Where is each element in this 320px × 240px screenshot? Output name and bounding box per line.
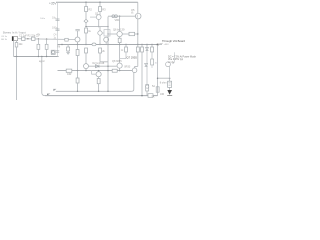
svg-text:100n: 100n [52, 26, 58, 29]
wire mirror down [99, 27, 101, 45]
node tail r16 [141, 44, 142, 45]
svg-text:2k: 2k [102, 50, 105, 53]
wire Q6 right [123, 33, 130, 35]
svg-text:10R: 10R [67, 73, 72, 76]
diode D2 [96, 65, 100, 68]
wire R9 right [135, 33, 138, 35]
wire Q4 emitter [105, 42, 107, 44]
resistor R12b [85, 48, 88, 53]
resistor R4 series [32, 37, 35, 40]
capacitor C8 [56, 51, 59, 52]
node rail-R2 [85, 2, 87, 4]
svg-text:0R33: 0R33 [124, 65, 131, 68]
transistor Q6 vbe multiplier [117, 31, 122, 36]
wire J1 gnd down [13, 41, 15, 57]
node output [157, 44, 159, 46]
wire main ground drop [16, 57, 18, 101]
wire nfb return [42, 57, 45, 96]
node tail mirror [99, 44, 100, 45]
ground speaker arrow [169, 87, 171, 90]
capacitor C9 [75, 29, 79, 30]
wire Q6 base [108, 33, 117, 35]
svg-text:22k: 22k [19, 43, 24, 46]
node bias tap [119, 16, 120, 17]
svg-text:+35V: +35V [164, 44, 170, 46]
node bus loop [41, 56, 43, 58]
wire Q6 collector up [119, 16, 121, 31]
wire R10 bottom [119, 43, 121, 45]
wire Q11 emitter [168, 66, 170, 78]
wire Q1 collector [77, 31, 79, 37]
capacitor C3 [46, 39, 48, 44]
svg-text:8 ohm: 8 ohm [160, 81, 167, 84]
transistor Q2 [96, 15, 101, 20]
node drv q3 [85, 70, 86, 71]
resistor R1 shunt [16, 41, 18, 43]
svg-text:Through V/A Board: Through V/A Board [162, 39, 185, 43]
node tail r13 [125, 44, 126, 45]
wire R18 bottom [98, 84, 100, 92]
wire speaker feed [158, 77, 170, 79]
svg-text:10u: 10u [52, 17, 57, 20]
resistor R7 [66, 69, 72, 72]
wire R12b bottom [85, 53, 87, 64]
ground sym1 [66, 53, 70, 55]
node Q6 base [107, 33, 108, 34]
wire mirror bus [86, 26, 108, 28]
node ret r18 [98, 91, 99, 92]
wire top +V rail [56, 1, 138, 3]
svg-text:Q7 2955: Q7 2955 [127, 56, 138, 60]
capacitor C6 [56, 29, 60, 30]
wire D1 bottom [85, 23, 87, 27]
transistor Q8 driver [117, 63, 122, 68]
wire output drop [157, 45, 159, 96]
resistor R14 [99, 48, 102, 53]
node tail fb [107, 44, 108, 45]
node bus gnd [16, 56, 18, 58]
wire tail line [58, 44, 158, 46]
bottom -V rail [45, 95, 158, 97]
wire Q6 bottom [119, 37, 121, 38]
wire Q3 emitter [85, 69, 87, 71]
diode D3 [146, 45, 148, 48]
node bus r5 [38, 56, 39, 57]
wire rail corner to Q5 [137, 2, 139, 13]
fuse F2 [146, 85, 149, 91]
node tail d3 [146, 44, 147, 45]
wire R3 top [99, 2, 101, 6]
wire vas out [89, 65, 117, 67]
transistor Q1 input [75, 37, 80, 42]
wire R12a bottom [85, 33, 87, 45]
svg-text:Q6 bd139: Q6 bd139 [113, 28, 125, 32]
node speaker tap [157, 77, 159, 79]
node speaker [169, 77, 171, 79]
node drv q7 [98, 70, 99, 71]
svg-text:D2 1n4148: D2 1n4148 [93, 62, 105, 65]
node mirror q2e [98, 26, 99, 27]
wire R3 bottom [99, 12, 101, 16]
wire VAS feed [108, 15, 136, 17]
wire Q7 emitter [98, 77, 100, 79]
svg-text:bc: bc [131, 11, 134, 14]
capacitor C11 oval [92, 43, 96, 46]
svg-text:1k: 1k [88, 30, 91, 33]
node rail r20 [141, 95, 143, 97]
wire Q5 emitter [137, 19, 139, 45]
wire Q1 emitter [77, 42, 79, 45]
svg-text:R3: R3 [102, 7, 106, 11]
wire speaker return [56, 90, 132, 92]
svg-text:1k: 1k [121, 50, 124, 52]
wire Q11 collector route [172, 52, 174, 63]
resistor R19 [77, 71, 79, 78]
resistor R20 [141, 45, 143, 48]
wire R2 bottom [85, 12, 87, 20]
node input c [46, 38, 47, 39]
wire decoupling chain [57, 2, 59, 56]
svg-text:R0 1k: R0 1k [1, 39, 8, 41]
resistor R18 [97, 79, 100, 84]
svg-text:at idle: at idle [168, 61, 175, 64]
wire R14 route [100, 53, 108, 62]
transistor Q3 [84, 64, 89, 69]
resistor R13 [125, 45, 127, 48]
wire output arrow [159, 44, 162, 46]
wire Q2 base [90, 16, 96, 18]
wire R1 to gnd bus [16, 47, 18, 57]
svg-text:100u: 100u [40, 18, 46, 20]
node input b [38, 38, 39, 39]
speaker LS1 [169, 78, 171, 81]
node drv q8 [119, 70, 120, 71]
resistor R3 [99, 7, 102, 12]
arrow rail [47, 94, 50, 96]
svg-text:47k: 47k [37, 35, 42, 37]
node tail r17 [151, 44, 152, 45]
node mirror left [85, 26, 86, 27]
diode D1 [84, 19, 88, 23]
node rail-R3 [99, 2, 101, 4]
svg-text:Vbe 0.45V typ: Vbe 0.45V typ [168, 58, 184, 61]
node tail r12 [85, 44, 86, 45]
wire Q8 emitter [119, 69, 121, 71]
resistor R15 [112, 69, 117, 72]
svg-text:5A: 5A [152, 85, 155, 88]
wire Q8 collector [119, 45, 121, 63]
connector J1 [12, 36, 14, 41]
node tail a [61, 44, 62, 45]
node mirror right [107, 26, 108, 27]
diode D4 [145, 63, 148, 66]
svg-text:10R: 10R [160, 94, 165, 96]
svg-text:R2: R2 [89, 7, 93, 11]
node bus c3 [46, 56, 47, 57]
svg-text:C4: C4 [54, 35, 58, 37]
resistor R17 [151, 45, 153, 48]
node drv fb [107, 70, 108, 71]
resistor R16 [137, 45, 139, 48]
svg-text:C0 1u: C0 1u [1, 36, 8, 38]
capacitor C10 to gnd [67, 45, 69, 48]
trimpot VR1 [112, 15, 115, 18]
node ret fb [107, 91, 108, 92]
transistor Q7 [96, 72, 101, 77]
resistor R22 [151, 59, 154, 65]
resistor R11 [77, 45, 79, 50]
node tail q1 [77, 44, 78, 45]
resistor R9 [129, 32, 135, 35]
svg-text:Q8 3055: Q8 3055 [112, 60, 122, 63]
resistor R10 [118, 38, 121, 42]
node ret r19 [77, 91, 78, 92]
transistor Q11 protection [166, 62, 171, 67]
resistor R8 stopper [65, 38, 68, 41]
fuse F1 on rail [148, 94, 153, 98]
transistor Q9 output [132, 68, 137, 73]
resistor R12a [85, 28, 88, 33]
wire Q4 loop [104, 30, 110, 36]
resistor R21 zobel [156, 87, 159, 92]
transistor Q5 [135, 13, 141, 19]
wire R2 top [85, 2, 87, 6]
capacitor C5 [56, 19, 60, 20]
node emitter join [137, 33, 138, 34]
node vas fb [107, 66, 108, 67]
svg-text:R6: R6 [57, 47, 61, 49]
wire driver rail [58, 70, 133, 72]
resistor R5 [37, 39, 39, 44]
ground bus [14, 56, 59, 58]
capacitor C7 electrolytic [51, 50, 55, 54]
arrow return [53, 89, 56, 91]
node drv q1 [77, 70, 78, 71]
node tail q5e [137, 44, 138, 45]
svg-text:5A: 5A [152, 96, 155, 99]
resistor R2 [85, 7, 88, 12]
wire Q2 emitter [98, 20, 100, 27]
node tail q6 [119, 44, 120, 45]
capacitor C1 [22, 37, 25, 40]
transistor Q3b [98, 31, 102, 35]
wire Q9 down loop [132, 72, 134, 91]
node input a [27, 38, 28, 39]
wire input signal [18, 38, 76, 41]
transistor Q4 feedback [104, 37, 109, 42]
wire Q7 base [92, 71, 97, 75]
wire feedback vertical [107, 17, 109, 92]
